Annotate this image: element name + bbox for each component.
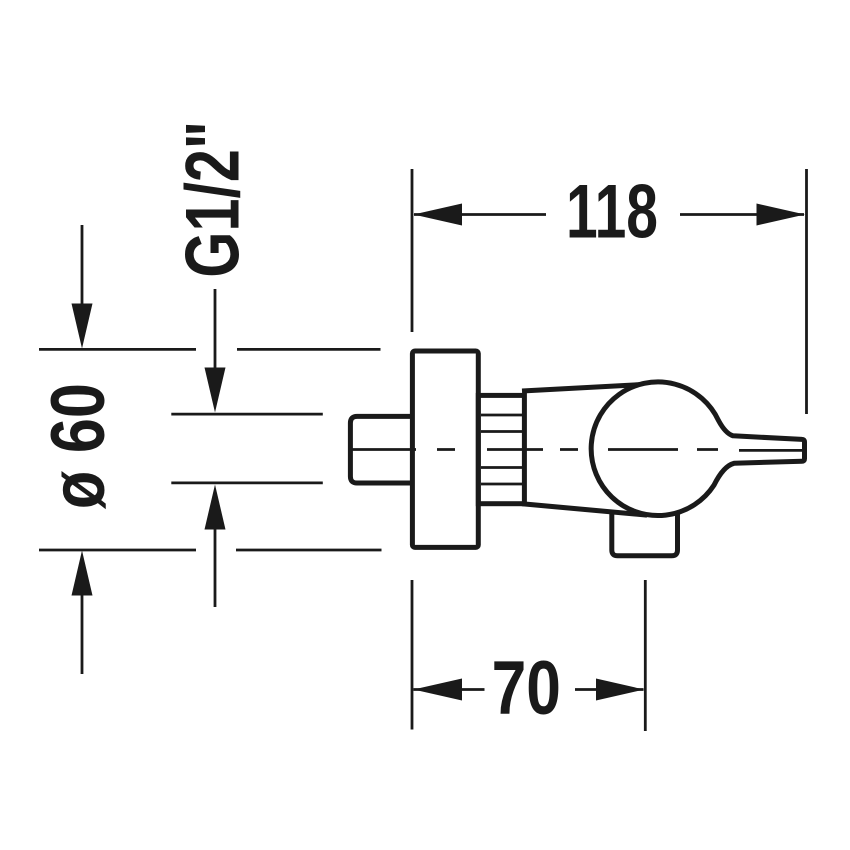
dim 118: dimension line right part [680, 213, 804, 216]
dim 70: right arrowhead [596, 679, 644, 701]
collar rib 1 [481, 414, 522, 417]
wall nipple G1/2 [350, 416, 412, 483]
dim o60: upper arrow tail [81, 225, 84, 307]
dim o60: lower arrow tail [81, 592, 84, 674]
collar rib 3 [481, 466, 522, 469]
valve head circle with lever handle (one outline) [591, 382, 804, 516]
dim G1/2: bottom extension line [171, 481, 322, 484]
dim G1/2: upper arrowhead (points down) [205, 368, 226, 413]
body cone top edge [522, 384, 645, 391]
dim o60: top extension line right segment [237, 348, 381, 351]
dim 118: left arrowhead [414, 204, 463, 226]
dim 118: right extension line [805, 169, 808, 414]
svg-text:70: 70 [492, 645, 561, 730]
body cone bottom edge [522, 504, 647, 515]
svg-text:G1/2": G1/2" [170, 121, 255, 278]
dim o60: upper arrowhead (points down) [72, 304, 93, 349]
dim G1/2: top extension line [171, 413, 322, 416]
dim G1/2: upper arrow tail [214, 289, 217, 370]
collar rib 4 [481, 483, 522, 486]
dim 70: left extension line [411, 580, 414, 730]
handle stem centerline [739, 449, 802, 452]
dim o60: top extension line left segment [39, 348, 196, 351]
dim 118: dimension line left part [414, 213, 546, 216]
dim G1/2: lower arrowhead (points up) [205, 485, 226, 530]
outlet port [612, 512, 678, 556]
dim 70: dimension line right part [575, 688, 644, 691]
dim 118: left extension line [411, 169, 414, 332]
dim 118: right arrowhead [757, 204, 806, 226]
dim 70: dimension line left part [414, 688, 485, 691]
main centerline dash-dot [352, 448, 718, 451]
dim G1/2: lower arrow tail [214, 527, 217, 607]
dim 70: left arrowhead [414, 679, 463, 701]
threaded collar outline [478, 395, 524, 503]
dim 70: right extension line [644, 580, 647, 731]
escutcheon plate [412, 351, 478, 547]
dim o60: lower arrowhead (points up) [72, 551, 93, 596]
collar rib 2 [481, 430, 522, 433]
dim o60: bottom extension line left segment [39, 549, 196, 552]
svg-text:118: 118 [566, 170, 658, 255]
svg-text:ø 60: ø 60 [35, 383, 120, 509]
dim o60: bottom extension line right segment [236, 549, 382, 552]
